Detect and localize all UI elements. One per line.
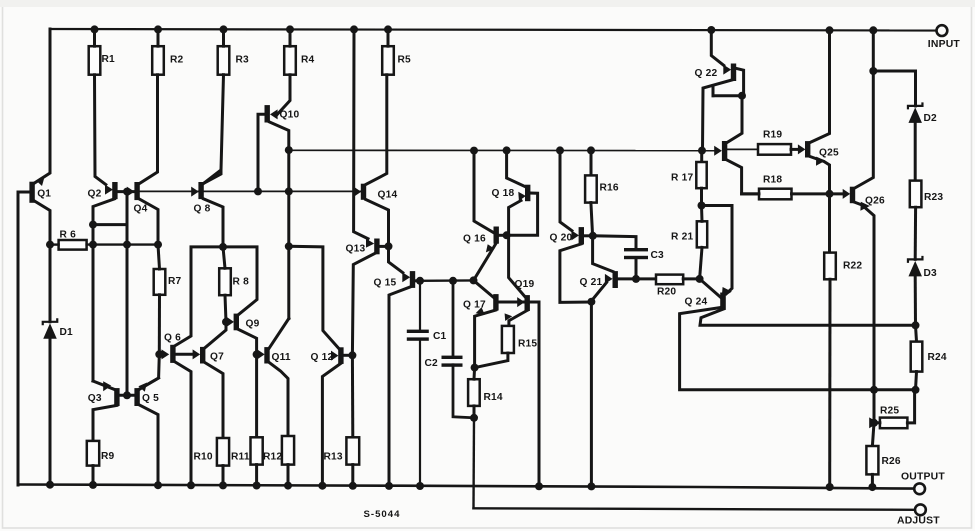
- svg-text:Q10: Q10: [280, 110, 300, 121]
- svg-text:R25: R25: [880, 406, 899, 417]
- svg-text:R24: R24: [928, 352, 947, 363]
- svg-text:Q 15: Q 15: [374, 278, 397, 289]
- svg-text:Q 12: Q 12: [311, 352, 334, 363]
- svg-text:C2: C2: [425, 358, 439, 369]
- svg-text:Q11: Q11: [272, 352, 291, 363]
- svg-text:R9: R9: [101, 451, 115, 462]
- svg-text:Q3: Q3: [88, 393, 102, 404]
- svg-text:OUTPUT: OUTPUT: [901, 472, 945, 483]
- svg-text:Q 8: Q 8: [194, 204, 211, 215]
- svg-text:Q4: Q4: [134, 204, 148, 215]
- svg-text:Q 18: Q 18: [492, 188, 515, 199]
- svg-text:R16: R16: [600, 183, 619, 194]
- svg-text:C1: C1: [433, 331, 447, 342]
- svg-text:R10: R10: [194, 452, 213, 463]
- svg-text:Q2: Q2: [88, 189, 102, 200]
- svg-text:R19: R19: [763, 130, 782, 141]
- svg-text:S-5044: S-5044: [364, 509, 401, 520]
- svg-text:R13: R13: [324, 452, 343, 463]
- svg-text:R23: R23: [924, 192, 943, 203]
- svg-text:R11: R11: [231, 452, 250, 463]
- svg-text:R 17: R 17: [671, 173, 693, 184]
- svg-text:Q26: Q26: [865, 196, 885, 207]
- svg-text:INPUT: INPUT: [928, 39, 961, 50]
- svg-text:R18: R18: [763, 175, 782, 186]
- svg-text:Q1: Q1: [37, 189, 51, 200]
- svg-text:R3: R3: [236, 55, 250, 66]
- svg-text:D3: D3: [924, 268, 938, 279]
- svg-text:R5: R5: [398, 55, 412, 66]
- svg-text:D1: D1: [60, 327, 74, 338]
- svg-text:R12: R12: [263, 452, 282, 463]
- svg-text:R 6: R 6: [60, 230, 77, 241]
- svg-text:Q9: Q9: [246, 319, 260, 330]
- svg-text:Q 17: Q 17: [463, 300, 486, 311]
- svg-text:R 21: R 21: [671, 232, 693, 243]
- svg-text:Q 21: Q 21: [580, 277, 603, 288]
- svg-text:Q 5: Q 5: [142, 393, 159, 404]
- svg-text:Q14: Q14: [378, 190, 398, 201]
- svg-text:Q7: Q7: [210, 352, 224, 363]
- svg-text:R 8: R 8: [233, 277, 250, 288]
- svg-text:Q 16: Q 16: [463, 234, 486, 245]
- svg-text:ADJUST: ADJUST: [897, 516, 940, 527]
- svg-text:R20: R20: [657, 287, 676, 298]
- svg-text:R14: R14: [484, 392, 503, 403]
- svg-text:R1: R1: [102, 54, 116, 65]
- svg-text:R22: R22: [843, 261, 862, 272]
- svg-text:Q 20: Q 20: [550, 233, 573, 244]
- svg-text:Q 24: Q 24: [685, 297, 708, 308]
- svg-text:R26: R26: [882, 456, 901, 467]
- svg-text:Q 6: Q 6: [164, 333, 181, 344]
- svg-text:Q19: Q19: [515, 279, 535, 290]
- svg-text:Q13: Q13: [346, 244, 366, 255]
- svg-text:Q 22: Q 22: [695, 68, 718, 79]
- svg-text:R15: R15: [518, 339, 537, 350]
- svg-text:Q25: Q25: [819, 148, 839, 159]
- svg-text:R7: R7: [168, 276, 182, 287]
- svg-text:R2: R2: [170, 55, 184, 66]
- svg-text:C3: C3: [651, 250, 665, 261]
- svg-text:R4: R4: [301, 55, 315, 66]
- svg-text:D2: D2: [924, 113, 938, 124]
